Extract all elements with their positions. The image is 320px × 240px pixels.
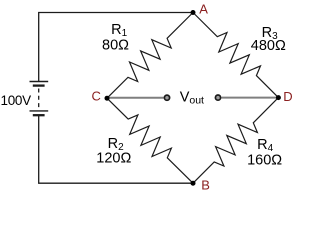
svg-text:120Ω: 120Ω xyxy=(96,151,131,167)
svg-text:Vout: Vout xyxy=(180,90,204,107)
wire left rail lower + bottom rail xyxy=(39,116,193,184)
terminal left xyxy=(164,95,169,100)
svg-text:80Ω: 80Ω xyxy=(102,38,129,54)
battery dashed middle xyxy=(38,89,40,109)
battery V2 long plate xyxy=(30,110,49,112)
svg-text:C: C xyxy=(92,89,101,104)
svg-text:160Ω: 160Ω xyxy=(247,153,282,169)
resistor R1 zigzag C to A xyxy=(107,13,193,99)
battery V1 long plate top xyxy=(30,81,49,83)
terminal right xyxy=(215,95,220,100)
battery V2 short thick plate xyxy=(33,114,45,116)
svg-text:100V: 100V xyxy=(1,93,32,108)
wire top rail + left rail upper xyxy=(39,13,193,82)
svg-text:480Ω: 480Ω xyxy=(251,38,286,54)
node A dot xyxy=(191,10,196,15)
svg-text:R4: R4 xyxy=(257,137,273,154)
node C dot xyxy=(105,96,110,101)
svg-text:A: A xyxy=(199,1,208,16)
wire gray C to left terminal xyxy=(108,97,164,99)
node B dot xyxy=(191,181,196,186)
resistor R4 zigzag B to D xyxy=(193,98,278,184)
resistor R3 zigzag A to D xyxy=(193,13,278,98)
node D dot xyxy=(276,95,281,100)
resistor R2 zigzag C to B xyxy=(107,98,193,183)
svg-text:B: B xyxy=(201,178,210,193)
battery V1 short thick plate xyxy=(33,84,45,86)
wire gray right terminal to D xyxy=(222,97,278,99)
svg-text:D: D xyxy=(283,89,292,104)
